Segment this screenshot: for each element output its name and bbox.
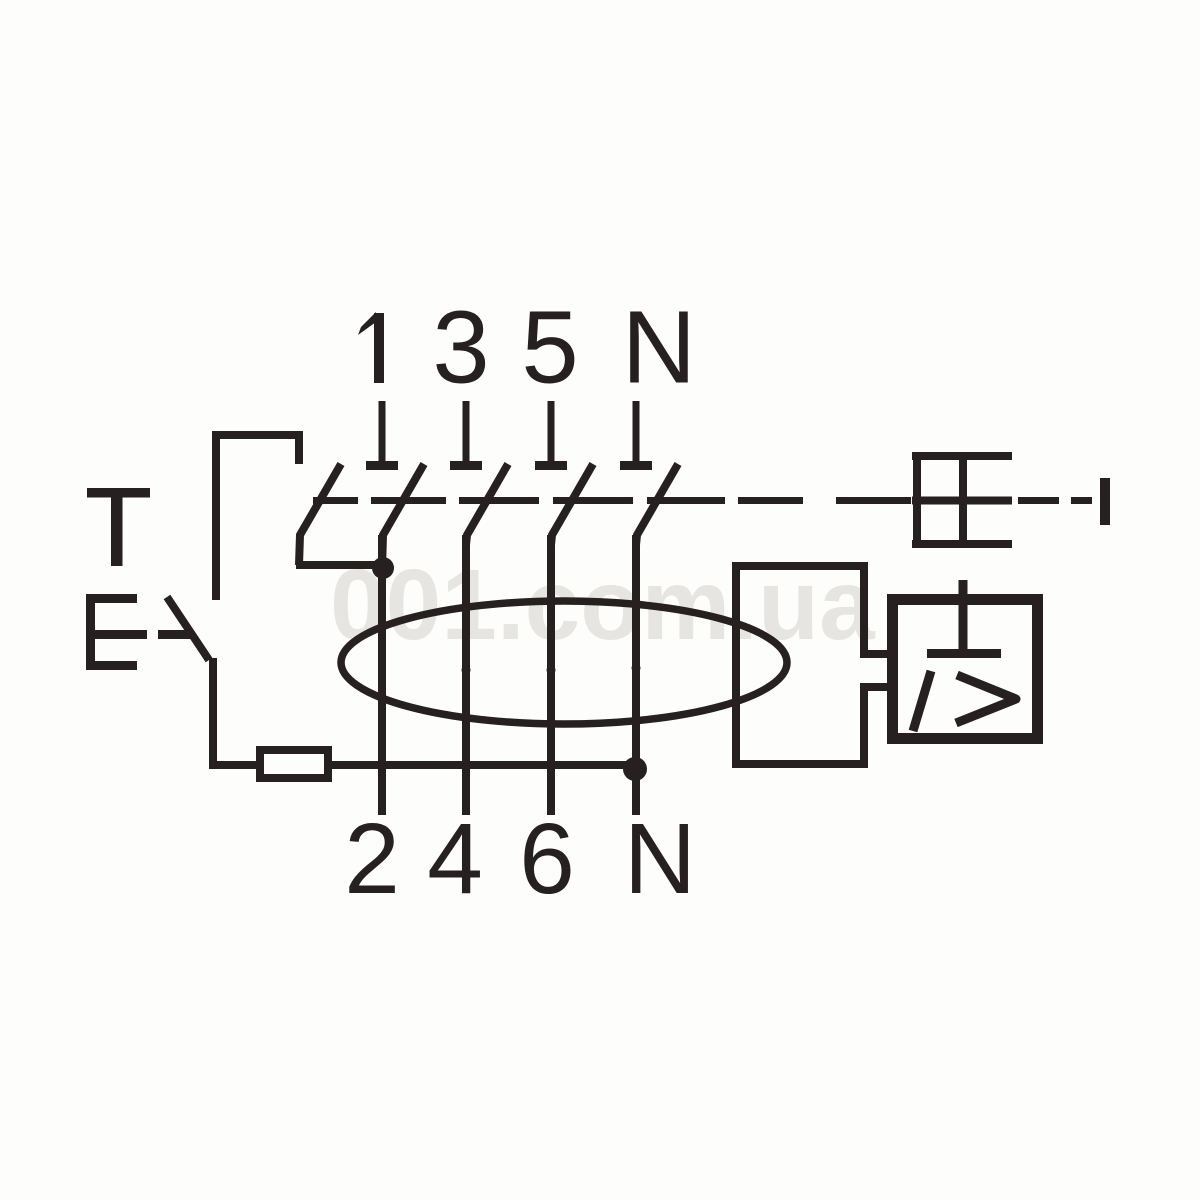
label 5 [521,290,578,405]
mechanism latch box [912,452,1012,548]
relay symbol I stroke [913,671,931,731]
svg-text:5: 5 [521,290,578,405]
svg-text:3: 3 [432,290,489,405]
winding dot pole 3 [462,666,471,675]
wire pole 5 conductor [547,535,555,815]
switch blade test contact [299,464,341,565]
switch blade pole 3 [466,464,508,545]
terminal 3 bar [450,461,482,470]
terminal 5 stem [548,401,555,462]
trip relay box I> [893,600,1038,739]
wire stub upper to relay [860,650,894,658]
wire pole 3 conductor [462,535,470,815]
label N top [622,290,696,405]
relay armature bar [927,649,1001,658]
wire test contact to pole 1 node [296,561,383,569]
test button E symbol [86,594,147,670]
label 6 [519,803,575,915]
wire test button down [213,658,256,765]
switch blade test button [167,597,209,660]
terminal N bar [620,461,652,470]
svg-text:2: 2 [344,803,400,915]
terminal 1 stem [379,401,386,462]
label N bottom [624,803,696,915]
svg-text:N: N [622,290,696,405]
svg-text:4: 4 [427,803,483,915]
node junction pole 1 / test tap [372,557,394,579]
winding dot pole 5 [547,666,556,675]
label 1 [358,312,384,383]
current transformer toroid ellipse [341,601,787,724]
svg-text:6: 6 [519,803,575,915]
switch blade pole 1 [382,464,424,569]
label 4 [427,803,483,915]
terminal N stem [633,401,640,462]
switch blade pole N [636,464,678,545]
terminal 1 bar [366,461,398,470]
svg-text:N: N [624,803,696,915]
wire test bracket [216,435,299,600]
label 2 [344,803,400,915]
wire pole 1 conductor [378,535,386,815]
wire relay armature stem [959,580,968,653]
node junction N / test return [623,757,647,781]
mechanism mid bar [912,497,1012,505]
mechanical trip dashed line [313,497,1092,504]
terminal 5 bar [535,461,567,470]
wire stub lower to relay [860,683,894,691]
wire pole N conductor [632,535,640,815]
relay symbol > stroke [956,675,1016,723]
mechanical link dash to test switch [158,630,192,639]
label 3 [432,290,489,405]
switch blade pole 5 [551,464,593,545]
handle terminal bar right [1100,478,1110,525]
wire resistor to N node [332,761,635,769]
resistor test circuit [260,750,328,778]
winding dot pole N [632,664,641,673]
terminal 3 stem [463,401,470,462]
secondary winding box [732,562,868,768]
label T test button [87,488,150,566]
